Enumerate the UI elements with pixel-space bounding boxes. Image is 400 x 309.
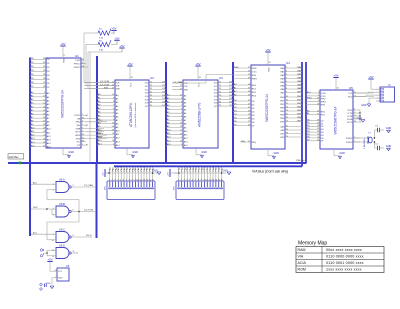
net label XTAL xyxy=(296,159,305,162)
CPU control pins xyxy=(74,114,86,147)
svg-text:VCC: VCC xyxy=(58,271,63,273)
power +5V PHI2 xyxy=(119,44,124,52)
svg-text:10: 10 xyxy=(52,240,54,242)
svg-text:+5V: +5V xyxy=(47,258,52,262)
svg-text:/CE: /CE xyxy=(116,82,120,84)
GND bank2 xyxy=(221,169,231,174)
power +5V RAM xyxy=(195,62,200,87)
svg-text:11: 11 xyxy=(137,179,139,181)
svg-text:W65C22S6TPG-14: W65C22S6TPG-14 xyxy=(265,94,269,122)
svg-text:ROM: ROM xyxy=(298,268,306,272)
resistor R2 3.3k xyxy=(95,40,116,51)
wire CPU pin stubs to verticals xyxy=(81,60,88,67)
svg-text:XTAL2: XTAL2 xyxy=(346,141,353,144)
svg-text:U2: U2 xyxy=(150,76,154,80)
power +5V R2 xyxy=(114,36,119,44)
svg-text:+5V: +5V xyxy=(265,48,270,52)
svg-text:15: 15 xyxy=(218,179,220,181)
GND C4 xyxy=(386,145,392,151)
wire +5V to clock rail xyxy=(88,51,122,53)
svg-text:XTAL1: XTAL1 xyxy=(346,137,353,140)
svg-text:/RES: /RES xyxy=(75,135,81,137)
power +5V CPU xyxy=(60,42,65,63)
crystal Y1 1.8432MHz xyxy=(353,133,375,150)
svg-text:/CS_ROM: /CS_ROM xyxy=(100,84,109,86)
text VIA Bus note xyxy=(252,170,288,174)
svg-text:GND: GND xyxy=(132,151,138,154)
wire gate4 inputs tied to NC xyxy=(40,249,56,257)
svg-text:GND: GND xyxy=(58,278,63,280)
VIA U4 xyxy=(251,61,290,149)
svg-text:1: 1 xyxy=(178,179,179,181)
svg-text:5: 5 xyxy=(120,179,121,181)
wire gate3 input A14 xyxy=(31,231,56,234)
wire CPU R/W crossing bus xyxy=(86,137,107,139)
svg-text:5: 5 xyxy=(189,179,190,181)
RAM GND xyxy=(196,148,207,158)
power +5V ACIA xyxy=(333,74,338,91)
wire gate3 output xyxy=(71,235,92,237)
wire R1 left to CPU xyxy=(84,32,95,34)
svg-text:2: 2 xyxy=(112,179,113,181)
svg-text:U3: U3 xyxy=(219,76,223,80)
svg-text:PHI2O: PHI2O xyxy=(74,67,81,69)
NAND gate U6:D xyxy=(52,244,75,259)
wire CPU /IRQ crossing bus xyxy=(86,120,107,122)
svg-text:13: 13 xyxy=(143,179,145,181)
wire RAM R/W from top xyxy=(183,75,233,84)
svg-text:W65C02S6TPG-14: W65C02S6TPG-14 xyxy=(61,90,65,118)
svg-text:/RES: /RES xyxy=(321,102,327,104)
svg-text:VDD: VDD xyxy=(64,58,66,63)
memory map table xyxy=(296,241,384,273)
VIA register select pins xyxy=(233,83,257,98)
svg-text:PHI2: PHI2 xyxy=(75,60,81,62)
resistor network wires bank1 xyxy=(105,167,154,182)
svg-text:+5V: +5V xyxy=(114,36,119,40)
svg-text:8: 8 xyxy=(129,179,130,181)
svg-text:+5V: +5V xyxy=(60,42,65,46)
svg-text:PHI2: PHI2 xyxy=(252,68,258,70)
ACIA U5 xyxy=(320,86,353,149)
GND J1 xyxy=(361,98,376,107)
svg-text:GND: GND xyxy=(201,151,207,154)
bus ROM-RAM vertical xyxy=(165,62,167,164)
svg-text:4: 4 xyxy=(186,179,187,181)
resistor R1 3.3k xyxy=(95,29,114,40)
svg-text:/CS_RAM: /CS_RAM xyxy=(173,81,183,84)
svg-text:20: 20 xyxy=(337,88,339,90)
svg-text:/CS0: /CS0 xyxy=(321,93,327,95)
wire gate1 output /CS_RAM xyxy=(71,184,96,187)
svg-text:VCC: VCC xyxy=(131,82,133,87)
VIA data pins xyxy=(233,100,255,128)
VIA port B pins xyxy=(280,96,302,124)
power +5V VIA xyxy=(265,48,270,72)
svg-text:7: 7 xyxy=(126,179,127,181)
svg-text:/DTR: /DTR xyxy=(347,116,353,118)
svg-text:/RTS: /RTS xyxy=(347,110,352,112)
svg-text:/NMI: /NMI xyxy=(76,128,81,130)
RAM control pins xyxy=(172,81,188,92)
svg-text:28: 28 xyxy=(131,77,133,79)
ROM data pins xyxy=(145,81,166,108)
svg-text:U4: U4 xyxy=(286,61,290,65)
svg-text:14: 14 xyxy=(215,179,217,181)
svg-text:0110 0001 0000 xxxx: 0110 0001 0000 xxxx xyxy=(326,261,364,265)
svg-text:U5: U5 xyxy=(349,86,353,90)
net labels ROM control xyxy=(100,81,109,89)
svg-text:VDD: VDD xyxy=(269,67,271,72)
svg-text:U6:A: U6:A xyxy=(59,178,65,182)
ACIA data pins xyxy=(306,119,324,142)
bus right vertical (gates) xyxy=(96,163,98,238)
svg-text:GND: GND xyxy=(339,152,345,155)
wire gate3 input2 loop xyxy=(47,212,79,240)
svg-text:/IRQ: /IRQ xyxy=(76,122,81,124)
svg-text:XTAL_net: XTAL_net xyxy=(296,159,305,162)
ACIA serial pins xyxy=(348,92,374,98)
wire R2 left to CPU xyxy=(86,44,95,46)
capacitor C5 decoupling xyxy=(40,283,46,290)
svg-text:(Has some BIOS in addresses): (Has some BIOS in addresses) xyxy=(135,102,137,127)
svg-text:/DSR: /DSR xyxy=(347,119,353,121)
svg-text:13: 13 xyxy=(212,179,214,181)
svg-text:16: 16 xyxy=(152,179,154,181)
svg-text:12: 12 xyxy=(140,179,142,181)
wire TxD to J1 xyxy=(353,91,376,94)
svg-text:/CS_RAM: /CS_RAM xyxy=(84,184,93,187)
svg-text:14: 14 xyxy=(54,270,56,272)
svg-text:+5V: +5V xyxy=(111,27,116,31)
svg-text:VIA Bus (Don't ask why): VIA Bus (Don't ask why) xyxy=(252,170,288,174)
CPU no-connect marks xyxy=(86,115,87,146)
svg-text:RxD: RxD xyxy=(348,96,353,98)
svg-text:2: 2 xyxy=(181,179,182,181)
svg-text:3: 3 xyxy=(115,179,116,181)
svg-text:+5V: +5V xyxy=(195,62,200,66)
bus CPU-ROM vertical xyxy=(96,56,98,164)
GND bank1 xyxy=(152,169,161,174)
svg-text:/IRQ: /IRQ xyxy=(241,141,246,143)
CPU data pins D0-D7 xyxy=(30,58,50,89)
svg-text:/CS1: /CS1 xyxy=(252,71,258,73)
RAM data pins xyxy=(214,81,233,108)
wire CPU /NMI crossing bus xyxy=(86,128,104,130)
svg-text:00xx xxxx xxxx xxxx: 00xx xxxx xxxx xxxx xyxy=(326,248,362,252)
VIA IRQ pin xyxy=(240,141,256,144)
svg-text:+5V: +5V xyxy=(119,44,124,48)
wire gate1 input2 loop xyxy=(47,190,79,212)
svg-text:10: 10 xyxy=(135,179,137,181)
power +5V U6 xyxy=(47,258,57,272)
svg-text:R/W: R/W xyxy=(104,87,108,89)
svg-text:+5V: +5V xyxy=(127,62,132,66)
main horizontal address bus xyxy=(8,162,306,164)
svg-text:6: 6 xyxy=(192,179,193,181)
CPU address pins A0-A15 xyxy=(30,91,51,148)
svg-text:/CS1: /CS1 xyxy=(321,96,327,98)
wire gate1 input A15 xyxy=(31,181,56,184)
svg-text:U6:D: U6:D xyxy=(59,244,65,248)
svg-text:9: 9 xyxy=(201,179,202,181)
svg-text:/RD_E: /RD_E xyxy=(86,235,93,237)
resistor network wires bank2 xyxy=(174,166,223,181)
svg-text:/CS_ROM: /CS_ROM xyxy=(100,81,109,83)
VIA horizontal bus xyxy=(114,165,302,167)
svg-text:+5V: +5V xyxy=(333,74,338,78)
svg-text:2: 2 xyxy=(53,190,54,192)
svg-text:7: 7 xyxy=(195,179,196,181)
svg-text:/DCD: /DCD xyxy=(347,122,353,124)
connector J1 serial header xyxy=(376,83,395,102)
svg-text:/CS_ROM: /CS_ROM xyxy=(84,210,93,212)
svg-text:GND: GND xyxy=(273,152,279,155)
svg-text:4: 4 xyxy=(117,179,118,181)
svg-text:Memory Map: Memory Map xyxy=(298,241,327,247)
svg-text:U1: U1 xyxy=(75,54,79,58)
ACIA modem pins xyxy=(347,109,360,124)
ROM GND xyxy=(127,148,138,158)
svg-text:1xxx xxxx xxxx xxxx: 1xxx xxxx xxxx xxxx xyxy=(326,268,362,272)
wire CPU BE xyxy=(86,118,97,120)
ACIA register pins xyxy=(306,109,326,116)
svg-text:0110 0000 0000 xxxx: 0110 0000 0000 xxxx xyxy=(326,255,364,259)
CPU clock pins PHI2 xyxy=(74,59,85,69)
svg-text:3: 3 xyxy=(184,179,185,181)
wire CPU /RES crossing bus xyxy=(86,133,107,135)
svg-text:7: 7 xyxy=(55,276,56,278)
NAND gate U6:B xyxy=(53,202,74,217)
RAM address pins A0-A14 xyxy=(166,93,188,147)
power +5V R1 xyxy=(111,27,116,35)
LED bar array bank1 xyxy=(105,181,156,200)
svg-text:9: 9 xyxy=(132,179,133,181)
svg-text:20: 20 xyxy=(269,62,271,64)
svg-text:/CTS: /CTS xyxy=(347,113,353,115)
VIA GND xyxy=(268,149,279,159)
svg-text:16: 16 xyxy=(221,179,223,181)
ACIA xtal pins xyxy=(346,137,360,144)
svg-text:/RES: /RES xyxy=(252,78,258,80)
power +5V J1 xyxy=(368,75,376,89)
svg-text:/OE: /OE xyxy=(116,86,120,88)
svg-text:8: 8 xyxy=(64,55,65,57)
wire gate2 inputs tied xyxy=(31,207,56,214)
svg-text:/SO: /SO xyxy=(77,142,81,144)
svg-text:Addr Bus: Addr Bus xyxy=(9,156,19,159)
bus RAM-VIA vertical xyxy=(232,62,234,164)
svg-text:6: 6 xyxy=(123,179,124,181)
capacitor C4 xyxy=(374,141,384,150)
GND C3 xyxy=(386,127,392,133)
svg-text:GND: GND xyxy=(361,104,367,107)
wire RxD to J1 xyxy=(353,95,376,96)
VIA handshake pins xyxy=(280,125,302,139)
capacitor C3 xyxy=(374,126,384,139)
RAM U3 xyxy=(183,76,223,148)
VIA control pins xyxy=(233,67,257,81)
ROM address pins A0-A14 xyxy=(97,93,120,147)
svg-text:U6:C: U6:C xyxy=(59,228,65,232)
svg-text:8: 8 xyxy=(198,179,199,181)
svg-text:/IRQ: /IRQ xyxy=(252,142,257,144)
ACIA GND xyxy=(334,149,345,159)
power +5V flag bank1 xyxy=(103,169,110,177)
svg-text:/WE: /WE xyxy=(116,89,121,91)
svg-text:GND: GND xyxy=(68,151,74,154)
addr bus vertical (CPU left) xyxy=(29,58,31,237)
svg-text:/VP: /VP xyxy=(77,145,81,147)
svg-text:AT28C256-15PU: AT28C256-15PU xyxy=(129,102,133,127)
svg-text:10: 10 xyxy=(204,179,206,181)
svg-text:PHI2: PHI2 xyxy=(321,99,327,101)
svg-text:11: 11 xyxy=(206,179,208,181)
svg-text:14: 14 xyxy=(146,179,148,181)
svg-text:GND: GND xyxy=(386,145,392,148)
VIA port A pins xyxy=(280,66,302,95)
CPU GND xyxy=(63,148,74,158)
NAND gate U6:C xyxy=(52,228,74,243)
svg-text:VIA: VIA xyxy=(298,255,304,259)
ROM U2 xyxy=(115,76,154,148)
GND U6 xyxy=(46,278,57,289)
svg-text:1: 1 xyxy=(109,179,110,181)
svg-text:1.8432MHz: 1.8432MHz xyxy=(364,138,366,149)
VIA bus vertical pair xyxy=(302,62,306,167)
ACIA control pins xyxy=(306,91,326,107)
power +5V ROM xyxy=(127,62,132,87)
NAND gate U6:A xyxy=(53,178,74,193)
svg-text:W65C51N6TPG-14: W65C51N6TPG-14 xyxy=(334,106,338,134)
IC U6 power pins 74HC00 xyxy=(54,264,69,281)
svg-text:SYNC: SYNC xyxy=(74,115,80,117)
ROM control pins xyxy=(84,81,120,90)
wire ROM control stubs xyxy=(84,83,115,89)
svg-text:12: 12 xyxy=(209,179,211,181)
GND ACIA modem pins xyxy=(356,110,365,122)
wire CPU RDY crossing bus xyxy=(86,131,104,133)
svg-text:HM62256B-LP70: HM62256B-LP70 xyxy=(198,103,202,128)
power +5V flag bank2 xyxy=(168,169,180,177)
svg-text:TxD: TxD xyxy=(348,93,352,95)
svg-text:U6:B: U6:B xyxy=(59,202,65,206)
svg-text:PHI1O: PHI1O xyxy=(74,64,81,66)
svg-text:+5V: +5V xyxy=(368,75,373,79)
Addr Bus net label xyxy=(8,154,24,164)
LED bar array bank2 xyxy=(174,181,225,200)
svg-text:U6: U6 xyxy=(66,264,70,268)
wire gate2 output /CS_ROM xyxy=(71,210,96,213)
svg-text:/OE: /OE xyxy=(184,86,188,88)
wire PHI2 vertical runs xyxy=(84,33,90,163)
svg-text:28: 28 xyxy=(199,77,201,79)
svg-text:ACIA: ACIA xyxy=(298,261,307,265)
svg-text:RDY: RDY xyxy=(76,132,81,134)
svg-text:RAM: RAM xyxy=(298,248,306,252)
CPU U1 xyxy=(46,54,81,148)
wire gate4 output NC xyxy=(71,253,79,255)
svg-text:15: 15 xyxy=(149,179,151,181)
svg-text:GND: GND xyxy=(386,127,392,130)
svg-text:/WE: /WE xyxy=(184,90,189,92)
